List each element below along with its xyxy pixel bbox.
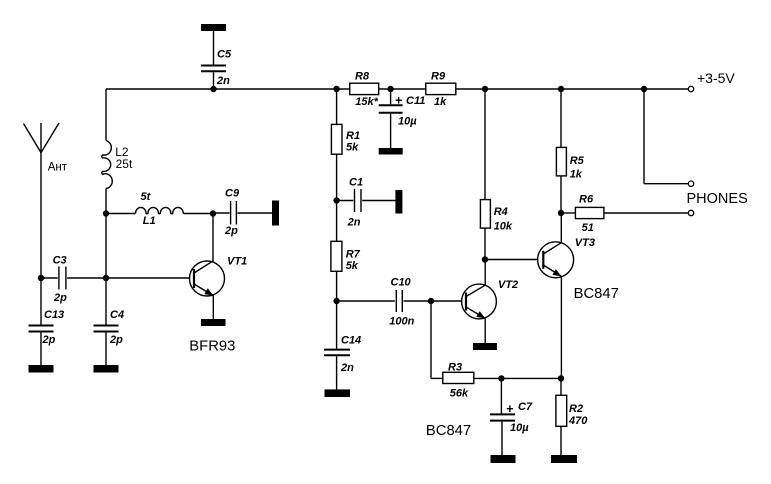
svg-text:C14: C14 bbox=[341, 335, 361, 347]
svg-text:R7: R7 bbox=[346, 248, 361, 260]
ground C14 bbox=[325, 389, 351, 397]
antenna bbox=[40, 123, 42, 325]
junction R7/C14/C10 bbox=[333, 298, 339, 304]
svg-text:C3: C3 bbox=[53, 255, 67, 267]
capacitor C4 bbox=[94, 325, 119, 327]
svg-text:C5: C5 bbox=[217, 49, 232, 61]
wire VT1 collector bbox=[212, 214, 214, 262]
junction VT3 emitter/R2 bbox=[558, 375, 564, 381]
ground VT2 bbox=[473, 343, 497, 350]
svg-text:R3: R3 bbox=[448, 362, 462, 374]
wire VT1 base bbox=[106, 277, 190, 279]
wire phones top branch bbox=[643, 89, 645, 184]
junction rail/R4 bbox=[482, 86, 488, 92]
resistor R7 bbox=[331, 241, 342, 271]
svg-text:10µ: 10µ bbox=[510, 422, 529, 434]
resistor R4 bbox=[484, 89, 486, 200]
wire VT2 base bbox=[431, 300, 462, 302]
capacitor C3 bbox=[41, 277, 58, 279]
svg-text:2p: 2p bbox=[42, 334, 56, 346]
junction R5/R6/VT3 collector bbox=[558, 210, 564, 216]
terminal phones bottom bbox=[688, 210, 693, 215]
ground R2 bbox=[551, 455, 577, 463]
wire L1 left bbox=[106, 213, 136, 215]
junction R8/C11 bbox=[387, 86, 393, 92]
wire L2 bottom to C4 bbox=[105, 189, 107, 326]
wire L1 right bbox=[183, 213, 213, 215]
svg-text:10µ: 10µ bbox=[398, 115, 417, 127]
svg-text:2n: 2n bbox=[347, 216, 361, 228]
junction C10/VT2 base/R3 bbox=[428, 298, 434, 304]
svg-text:2n: 2n bbox=[216, 75, 230, 87]
capacitor C5 bbox=[213, 31, 215, 65]
terminal phones top bbox=[688, 181, 693, 186]
svg-text:1k: 1k bbox=[570, 169, 583, 181]
resistor R3 bbox=[443, 372, 474, 383]
svg-text:25t: 25t bbox=[116, 157, 133, 171]
svg-text:2p: 2p bbox=[53, 292, 67, 304]
svg-text:100n: 100n bbox=[389, 316, 414, 328]
junction rail/R5 bbox=[558, 86, 564, 92]
svg-text:BC847: BC847 bbox=[426, 423, 471, 439]
svg-text:5k: 5k bbox=[346, 260, 359, 272]
svg-text:R9: R9 bbox=[431, 71, 446, 83]
junction L2/L1 bbox=[103, 210, 109, 216]
svg-text:R6: R6 bbox=[579, 194, 594, 206]
svg-text:R1: R1 bbox=[346, 130, 360, 142]
transistor VT3 bbox=[560, 213, 562, 243]
svg-text:R8: R8 bbox=[355, 71, 370, 83]
capacitor C9 bbox=[213, 212, 230, 214]
resistor R8 bbox=[350, 83, 379, 94]
junction C3/C4/VT1 base bbox=[103, 275, 109, 281]
capacitor C1 bbox=[337, 200, 354, 202]
wire VT3 base bbox=[485, 259, 538, 261]
svg-text:VT1: VT1 bbox=[227, 256, 247, 268]
svg-text:C7: C7 bbox=[518, 401, 533, 413]
wire R3 branch bbox=[430, 301, 432, 378]
svg-text:VT2: VT2 bbox=[498, 279, 518, 291]
svg-text:BC847: BC847 bbox=[574, 286, 619, 302]
capacitor C10 bbox=[337, 300, 395, 302]
svg-text:10k: 10k bbox=[494, 221, 513, 233]
junction antenna/C3/C13 bbox=[38, 275, 44, 281]
junction R1/C1/R7 bbox=[333, 197, 339, 203]
inductor L1 bbox=[136, 207, 184, 213]
svg-text:C1: C1 bbox=[349, 177, 363, 189]
svg-text:5t: 5t bbox=[141, 191, 152, 203]
capacitor C7 bbox=[500, 378, 502, 413]
capacitor C13 bbox=[29, 325, 54, 327]
svg-text:Ант: Ант bbox=[48, 162, 68, 174]
wire top rail bbox=[106, 88, 350, 90]
resistor R6 bbox=[561, 212, 575, 214]
svg-text:R4: R4 bbox=[494, 206, 508, 218]
inductor L2 bbox=[102, 141, 112, 189]
ground C11 bbox=[379, 148, 403, 155]
svg-text:2p: 2p bbox=[109, 334, 123, 346]
ground C4 bbox=[94, 365, 119, 373]
svg-text:+: + bbox=[506, 402, 513, 416]
capacitor C11 bbox=[390, 89, 392, 104]
svg-text:1k: 1k bbox=[434, 96, 447, 108]
wire L2 column top bbox=[105, 89, 107, 141]
svg-text:C10: C10 bbox=[391, 277, 412, 289]
junction C5/rail bbox=[210, 86, 216, 92]
svg-text:C9: C9 bbox=[225, 188, 240, 200]
svg-text:+3-5V: +3-5V bbox=[697, 70, 735, 86]
resistor R9 bbox=[426, 83, 456, 94]
junction R3/C7 bbox=[498, 375, 504, 381]
ground C7 bbox=[491, 455, 516, 463]
junction R4/VT2 collector/VT3 base bbox=[482, 256, 488, 262]
svg-text:R5: R5 bbox=[570, 155, 585, 167]
junction L1/C9/VT1 collector bbox=[210, 210, 216, 216]
svg-text:2p: 2p bbox=[224, 225, 238, 237]
resistor R2 bbox=[560, 378, 562, 395]
junction rail/phones branch bbox=[641, 86, 647, 92]
junction R8/R1 bbox=[333, 86, 339, 92]
svg-text:PHONES: PHONES bbox=[687, 191, 748, 207]
transistor VT1 bbox=[190, 261, 225, 296]
svg-text:C4: C4 bbox=[110, 309, 124, 321]
svg-text:C11: C11 bbox=[406, 95, 425, 107]
svg-text:C13: C13 bbox=[44, 309, 64, 321]
resistor R1 bbox=[336, 89, 338, 124]
transistor VT2 bbox=[462, 284, 497, 319]
svg-text:56k: 56k bbox=[450, 388, 469, 400]
resistor R5 bbox=[560, 89, 562, 147]
svg-text:5k: 5k bbox=[346, 142, 359, 154]
svg-text:VT3: VT3 bbox=[575, 237, 595, 249]
svg-text:15k*: 15k* bbox=[355, 96, 378, 108]
capacitor C14 bbox=[336, 301, 338, 349]
ground C13 bbox=[29, 365, 54, 373]
svg-text:+: + bbox=[395, 93, 402, 107]
ground VT1 bbox=[201, 319, 226, 326]
svg-text:2n: 2n bbox=[340, 362, 354, 374]
svg-text:51: 51 bbox=[582, 222, 594, 234]
svg-text:L1: L1 bbox=[143, 215, 156, 227]
ground C5 (top bar) bbox=[201, 24, 226, 31]
svg-text:BFR93: BFR93 bbox=[189, 339, 235, 355]
svg-text:R2: R2 bbox=[569, 403, 583, 415]
svg-text:470: 470 bbox=[568, 415, 588, 427]
terminal +3-5V bbox=[688, 86, 693, 91]
